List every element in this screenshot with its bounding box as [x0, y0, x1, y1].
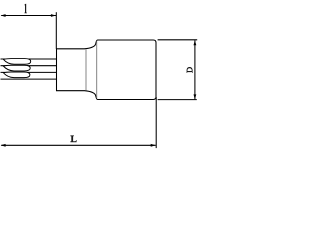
socket body and collar outline	[57, 40, 157, 100]
spline flute petal 2	[3, 65, 30, 71]
extension line for l dimension	[55, 12, 57, 49]
body front edge line	[96, 41, 98, 98]
shank ridge line 3	[1, 71, 57, 73]
arrowhead right of l dimension	[51, 14, 56, 17]
arrowhead top of D dimension	[194, 40, 197, 45]
extension line bottom right	[158, 99, 197, 101]
label L	[70, 135, 76, 142]
extension line right for L dimension	[155, 97, 157, 148]
extension line top right	[158, 39, 198, 41]
dimension line D	[194, 40, 196, 99]
arrowhead right of L dimension	[151, 144, 156, 147]
shank ridge line 4	[1, 78, 57, 80]
spline flute petal 1	[3, 59, 30, 65]
arrowhead left of l dimension	[1, 14, 6, 17]
spline flute petal 3	[3, 72, 30, 78]
arrowhead left of L dimension	[1, 144, 6, 147]
collar edge line	[85, 50, 87, 91]
label D	[187, 67, 193, 73]
shank ridge line 1	[1, 58, 57, 60]
label l	[24, 4, 27, 14]
dimension line l (top)	[1, 15, 56, 17]
shank ridge line 2	[1, 65, 57, 67]
arrowhead bottom of D dimension	[194, 94, 197, 99]
dimension line L (bottom)	[1, 144, 156, 146]
